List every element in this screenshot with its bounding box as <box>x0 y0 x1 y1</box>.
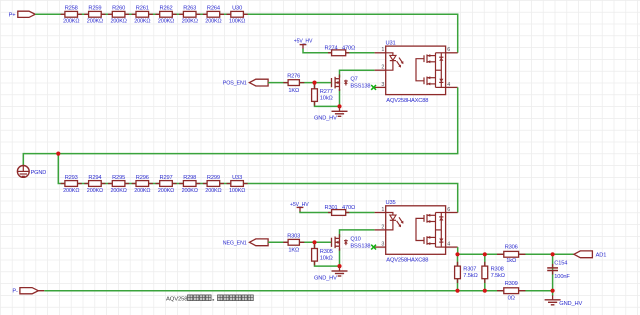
svg-text:200KΩ: 200KΩ <box>87 19 103 25</box>
svg-text:PGND: PGND <box>31 170 47 176</box>
svg-text:4: 4 <box>447 82 450 88</box>
U35 pin 3 <box>375 242 386 248</box>
svg-text:200KΩ: 200KΩ <box>111 19 127 25</box>
svg-text:Q10: Q10 <box>350 236 360 242</box>
svg-text:GND_HV: GND_HV <box>314 275 337 281</box>
svg-text:AQV258HAXC88: AQV258HAXC88 <box>386 98 428 104</box>
resistor R258 200KΩ <box>61 6 82 25</box>
svg-text:200KΩ: 200KΩ <box>63 19 79 25</box>
svg-text:R262: R262 <box>160 6 173 12</box>
svg-text:200KΩ: 200KΩ <box>111 188 127 194</box>
resistor U30 100KΩ <box>227 6 248 25</box>
junction Q7 source / R277 / ground <box>337 104 341 108</box>
svg-text:R295: R295 <box>112 175 125 181</box>
svg-text:Q7: Q7 <box>350 77 357 83</box>
svg-text:470Ω: 470Ω <box>342 205 355 211</box>
svg-text:1KΩ: 1KΩ <box>288 248 299 254</box>
svg-text:R309: R309 <box>505 281 518 287</box>
port NEG_EN1 <box>223 239 268 246</box>
svg-text:U31: U31 <box>386 40 396 46</box>
svg-text:U35: U35 <box>386 200 396 206</box>
wire U31 pin 4 to PGND net <box>23 87 457 165</box>
svg-text:R298: R298 <box>183 175 196 181</box>
svg-text:U33: U33 <box>232 175 242 181</box>
svg-text:BSS138: BSS138 <box>350 243 370 249</box>
wire Q7 drain to U31 pin 2 <box>340 70 375 77</box>
wire Q7 source to GND node <box>339 89 341 106</box>
svg-text:200KΩ: 200KΩ <box>205 19 221 25</box>
wire +5V_HV to R274 to U31 pin 1 <box>303 49 375 53</box>
wire R307 leg <box>457 254 459 290</box>
resistor R293 200KΩ <box>61 175 82 194</box>
power port PGND <box>17 166 46 178</box>
wire POS_EN1 to Q7 gate <box>268 82 331 84</box>
resistor U33 100KΩ <box>227 175 248 194</box>
wire chain2 to U35 pin 6 <box>243 184 457 213</box>
capacitor C154 100nF <box>547 261 570 280</box>
U31 pin 2 <box>375 65 386 71</box>
U35 pin 1 <box>375 207 386 213</box>
resistor R261 200KΩ <box>132 6 153 25</box>
svg-text:R305: R305 <box>320 249 333 255</box>
optocoupler U35 AQV258HAXC88 body <box>386 200 446 264</box>
svg-text:BSS138: BSS138 <box>350 84 370 90</box>
svg-text:1: 1 <box>381 47 384 53</box>
U35 pin 2 <box>375 224 386 230</box>
svg-text:R303: R303 <box>287 233 300 239</box>
resistor R262 200KΩ <box>155 6 176 25</box>
U35 internal LED <box>386 213 404 230</box>
wire C154 leg <box>552 254 554 290</box>
svg-text:AQV258: AQV258 <box>166 297 188 303</box>
junction ground net / R308 <box>483 289 487 293</box>
svg-text:200KΩ: 200KΩ <box>158 19 174 25</box>
svg-text:R277: R277 <box>320 89 333 95</box>
ground GND_HV (bottom right) <box>545 291 583 307</box>
junction ground net / R307 <box>455 289 459 293</box>
resistor R294 200KΩ <box>84 175 105 194</box>
transistor Q10 BSS138 <box>332 234 371 251</box>
svg-text:AD1: AD1 <box>596 252 607 258</box>
resistor R298 200KΩ <box>179 175 200 194</box>
svg-text:P-: P- <box>12 289 18 295</box>
svg-text:R259: R259 <box>88 6 101 12</box>
resistor R308 7.5kΩ <box>482 262 505 283</box>
svg-text:R276: R276 <box>287 74 300 80</box>
svg-text:100KΩ: 100KΩ <box>229 188 245 194</box>
wire R277 branch <box>314 83 316 89</box>
svg-text:+5V_HV: +5V_HV <box>290 202 309 208</box>
port P+ <box>9 11 36 18</box>
svg-text:0Ω: 0Ω <box>508 296 515 302</box>
note text: AQV258下方开槽，增加爬电距离 <box>166 295 253 303</box>
resistor R297 200KΩ <box>155 175 176 194</box>
svg-text:100nF: 100nF <box>554 274 570 280</box>
resistor R277 10kΩ <box>312 85 333 106</box>
junction R303/R305/Q10 gate <box>312 240 316 244</box>
wire NEG_EN1 to Q10 gate <box>268 241 331 243</box>
svg-text:470Ω: 470Ω <box>342 45 355 51</box>
junction R276/R277/Q7 gate <box>312 81 316 85</box>
svg-text:R264: R264 <box>207 6 220 12</box>
resistor R264 200KΩ <box>203 6 224 25</box>
ground GND_HV (bottom left) <box>314 267 348 282</box>
wire Q10 source to GND node <box>339 249 341 266</box>
wire R305 branch <box>314 242 316 248</box>
resistor R263 200KΩ <box>179 6 200 25</box>
power +5V_HV (bottom) <box>290 202 309 212</box>
svg-text:R294: R294 <box>88 175 101 181</box>
svg-text:GND_HV: GND_HV <box>559 301 582 307</box>
svg-text:2: 2 <box>381 224 384 230</box>
svg-text:1kΩ: 1kΩ <box>506 258 516 264</box>
svg-text:7.5kΩ: 7.5kΩ <box>463 273 477 279</box>
svg-text:R263: R263 <box>183 6 196 12</box>
svg-text:200KΩ: 200KΩ <box>205 188 221 194</box>
wire output node horizontal <box>458 253 574 255</box>
svg-text:POS_EN1: POS_EN1 <box>223 81 247 87</box>
wire R308 leg <box>484 254 486 290</box>
power +5V_HV (top) <box>294 39 313 50</box>
resistor R296 200KΩ <box>132 175 153 194</box>
svg-text:100KΩ: 100KΩ <box>229 19 245 25</box>
junction Q10 source / R305 / ground <box>337 264 341 268</box>
wire P- to ground net <box>44 290 552 292</box>
U31 pin 4 <box>446 82 458 88</box>
wire P+ to resistor chain <box>35 13 243 15</box>
svg-text:200KΩ: 200KΩ <box>63 188 79 194</box>
svg-text:R307: R307 <box>463 266 476 272</box>
junction ground net / C154 / GND_HV <box>551 289 555 293</box>
svg-text:2: 2 <box>381 65 384 71</box>
svg-text:NEG_EN1: NEG_EN1 <box>223 240 247 246</box>
svg-text:+5V_HV: +5V_HV <box>294 39 313 45</box>
U35 pin 4 <box>446 242 458 248</box>
svg-text:6: 6 <box>447 47 450 53</box>
wire second chain <box>61 183 244 185</box>
transistor Q7 BSS138 <box>332 75 371 92</box>
U31 internal LED <box>386 53 404 70</box>
wire +5V_HV to R301 to U35 pin 1 <box>300 211 375 212</box>
svg-text:U30: U30 <box>232 6 242 12</box>
resistor R309 0Ω <box>497 281 525 302</box>
resistor R299 200KΩ <box>203 175 224 194</box>
svg-text:R296: R296 <box>136 175 149 181</box>
U31 pin 3 <box>375 82 386 88</box>
junction output node / C154 <box>551 252 555 256</box>
resistor R303 1KΩ <box>283 233 304 253</box>
wire Q10 drain to U35 pin 2 <box>340 230 375 237</box>
svg-text:10kΩ: 10kΩ <box>320 96 333 102</box>
svg-text:R301: R301 <box>325 205 338 211</box>
resistor R276 1KΩ <box>283 74 304 94</box>
junction PGND net <box>56 152 60 156</box>
svg-text:R297: R297 <box>160 175 173 181</box>
svg-text:200KΩ: 200KΩ <box>158 188 174 194</box>
svg-text:R274: R274 <box>325 45 338 51</box>
resistor R306 1kΩ <box>497 245 525 264</box>
svg-text:R260: R260 <box>112 6 125 12</box>
svg-text:200KΩ: 200KΩ <box>182 19 198 25</box>
optocoupler U31 AQV258HAXC88 body <box>386 40 446 104</box>
wire chain to U31 pin 6 <box>243 14 457 53</box>
ground GND_HV (top) <box>314 107 348 122</box>
svg-text:R261: R261 <box>136 6 149 12</box>
svg-text:6: 6 <box>447 207 450 213</box>
U31 pin 1 <box>375 47 386 53</box>
svg-text:200KΩ: 200KΩ <box>134 19 150 25</box>
svg-text:R308: R308 <box>491 266 504 272</box>
port AD1 <box>574 251 606 258</box>
svg-text:200KΩ: 200KΩ <box>182 188 198 194</box>
svg-text:R258: R258 <box>65 6 78 12</box>
svg-text:3: 3 <box>381 242 384 248</box>
svg-text:10kΩ: 10kΩ <box>320 255 333 261</box>
svg-text:AQV258HAXC88: AQV258HAXC88 <box>386 258 428 264</box>
svg-text:200KΩ: 200KΩ <box>134 188 150 194</box>
resistor R259 200KΩ <box>84 6 105 25</box>
svg-text:R293: R293 <box>65 175 78 181</box>
resistor R260 200KΩ <box>108 6 129 25</box>
U35 pin 6 <box>446 207 458 213</box>
svg-text:R306: R306 <box>505 245 518 251</box>
svg-text:P+: P+ <box>9 12 17 18</box>
wire PGND net to second chain <box>58 154 60 184</box>
resistor R274 470Ω <box>325 45 356 55</box>
svg-text:GND_HV: GND_HV <box>314 116 337 122</box>
resistor R307 7.5kΩ <box>455 262 478 283</box>
svg-text:3: 3 <box>381 82 384 88</box>
junction output node / R308 <box>483 252 487 256</box>
U35 pin 3 no-connect X <box>371 245 376 250</box>
U31 internal MOSFET pair <box>416 53 446 88</box>
svg-text:C154: C154 <box>554 261 567 267</box>
wire U35 pin 4 to output node <box>457 247 459 254</box>
U35 internal MOSFET pair <box>416 213 446 248</box>
svg-text:4: 4 <box>447 242 450 248</box>
svg-text:200KΩ: 200KΩ <box>87 188 103 194</box>
svg-text:R299: R299 <box>207 175 220 181</box>
svg-text:7.5kΩ: 7.5kΩ <box>491 273 505 279</box>
port POS_EN1 <box>223 79 268 86</box>
svg-text:1: 1 <box>381 207 384 213</box>
U31 pin 3 no-connect X <box>371 85 376 90</box>
junction output node / R307 <box>455 252 459 256</box>
resistor R295 200KΩ <box>108 175 129 194</box>
resistor R301 470Ω <box>325 205 356 215</box>
svg-text:1KΩ: 1KΩ <box>288 88 299 94</box>
U31 pin 6 <box>446 47 458 53</box>
resistor R305 10kΩ <box>312 244 333 265</box>
port P- <box>12 288 38 295</box>
